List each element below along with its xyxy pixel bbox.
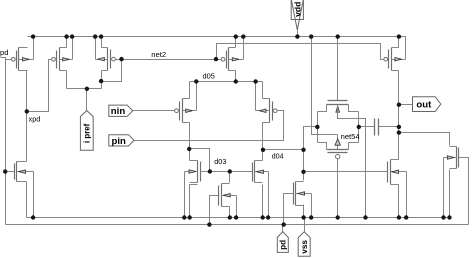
- junction dots on vss rail: [31, 215, 452, 219]
- wire M2 drain down: [66, 71, 68, 89]
- wire M8 bulk to vss: [406, 172, 408, 218]
- wire vdd pin stem: [297, 31, 299, 37]
- wire Mpd gate to pd rail: [284, 194, 293, 225]
- transistor Mmid nmos d03 pulldown: [219, 184, 237, 207]
- svg-text:net54: net54: [341, 132, 360, 141]
- svg-text:d05: d05: [203, 72, 215, 81]
- wire M4 bulk to vss: [33, 172, 35, 218]
- wire pd rail: [6, 224, 469, 226]
- svg-text:nin: nin: [111, 106, 126, 117]
- wire ML2 drain riser: [255, 150, 263, 161]
- wire out to M9 drain: [399, 133, 450, 146]
- transistor ML1 nmos load left (mirrored): [185, 161, 210, 183]
- wire out pin lead: [399, 104, 413, 106]
- junction dot d04 M8 gate: [301, 170, 305, 174]
- svg-text:pd: pd: [279, 240, 288, 250]
- wire cap right lead: [379, 126, 399, 128]
- junction dot M3 drain: [99, 79, 103, 83]
- wire cap left lead: [359, 126, 375, 128]
- transistor M7 pmos diff pair right (mirrored): [256, 99, 282, 123]
- pin i pref (bias current input): [80, 111, 93, 151]
- pin pin (non-inverting input): [109, 135, 134, 147]
- transistor M4 nmos pulldown (bottom-left): [6, 162, 34, 182]
- wire net54 right node lower: [358, 127, 360, 143]
- wire Mpd bulk to vss: [311, 194, 313, 218]
- wire Mmid gate to pd rail: [210, 196, 220, 225]
- wire d04 horizontal: [263, 149, 304, 151]
- junction dots on pd rail: [207, 222, 286, 226]
- svg-text:pin: pin: [111, 136, 126, 147]
- wire d03 gate bus: [201, 171, 253, 173]
- wire M5 drain to tail: [235, 71, 237, 82]
- wire M3 source to vdd: [101, 37, 103, 48]
- net label net2: [151, 50, 166, 59]
- wire M9 bulk to vss: [443, 158, 445, 218]
- wire ML2 source to vss: [262, 185, 264, 218]
- pin nin (inverting input): [109, 105, 133, 117]
- wire Mmid bulk to vss: [236, 196, 238, 218]
- svg-text:vdd: vdd: [292, 2, 302, 17]
- wire d04 riser to net54: [304, 127, 318, 150]
- pin out (output): [413, 97, 441, 112]
- wire M6 bulk to tail: [196, 82, 198, 111]
- wire M6 drain to d03: [189, 123, 191, 161]
- wire M8 source to vss: [398, 185, 400, 218]
- wire net54 left node lower: [317, 127, 319, 143]
- svg-text:d04: d04: [272, 153, 284, 160]
- wire M5 bulk to vdd: [243, 37, 245, 60]
- junction dot net54 left: [315, 125, 319, 129]
- svg-text:d03: d03: [214, 157, 226, 166]
- svg-text:vss: vss: [300, 240, 309, 254]
- transistor M8 nmos output driver: [388, 160, 407, 185]
- svg-text:pd: pd: [0, 48, 8, 57]
- wire d03 horizontal: [190, 149, 210, 172]
- svg-text:out: out: [416, 100, 432, 111]
- wire Mpd source to vss (vss pin tie): [303, 205, 305, 218]
- junction dot xpd: [25, 109, 29, 113]
- wire pin to M7 gate: [135, 111, 284, 141]
- wire vdd rail: [28, 37, 406, 60]
- transistor MC2 pmos transmission gate (net54 bottom, gate to vss): [318, 139, 359, 159]
- transistor M6 pmos diff pair left: [175, 99, 197, 123]
- net label pd (top-left): [0, 48, 8, 57]
- pin vss (ground): [298, 232, 310, 256]
- transistor M9 nmos out pulldown (mirrored): [444, 147, 459, 169]
- pin pd (power down): [277, 232, 288, 253]
- transistor M2 pmos mirror: [52, 48, 73, 71]
- capacitor C1 compensation: [375, 119, 379, 136]
- junction dot net2 at M5 gate: [214, 57, 218, 61]
- transistor M5 pmos tail current source: [221, 48, 243, 71]
- net label xpd: [29, 114, 41, 123]
- junction dot d03 left: [187, 147, 191, 151]
- junction dots d03 gate bus: [208, 169, 232, 173]
- wire net54 gate (top) to vdd: [337, 37, 339, 101]
- wire pd net left vertical: [1, 58, 12, 225]
- net label net54: [341, 132, 360, 141]
- net label d04: [272, 153, 284, 160]
- wire ML1 drain riser: [190, 160, 198, 162]
- junction dot d04 left: [261, 148, 265, 152]
- wire Mmid source to vss: [229, 207, 231, 218]
- wire M3 drain to gate (diode tie): [102, 60, 122, 82]
- svg-text:i pref: i pref: [83, 123, 92, 143]
- junction dots out node: [397, 103, 401, 135]
- transistor M10 pmos output stage: [384, 48, 406, 71]
- wire ipref net horizontal: [67, 88, 102, 90]
- wire tail d05 horizontal: [190, 81, 263, 83]
- wire M4 source to vss: [26, 182, 28, 218]
- wire M7 drain to d04: [262, 123, 264, 150]
- wire d04 to M8 gate: [304, 171, 388, 173]
- net label d03: [214, 157, 226, 166]
- wire ML1 source to vss: [190, 185, 198, 218]
- wire net54 pmos bulk to vdd: [312, 37, 338, 135]
- wire net2 horizontal: [122, 59, 222, 61]
- wire net54 left node: [317, 112, 319, 127]
- wire vss pin stem: [304, 218, 306, 232]
- wire out node vertical: [398, 71, 400, 160]
- wire M2 source to vdd: [66, 37, 68, 48]
- wire nin to M6 gate: [133, 110, 175, 112]
- net label d05: [203, 72, 215, 81]
- wire M7 source to tail: [262, 82, 264, 99]
- transistor M1 pmos power-down (top-left): [11, 48, 33, 71]
- junction dots on vdd rail: [31, 34, 401, 38]
- transistor M3 pmos diode (mirrored): [96, 48, 122, 71]
- wire net54 pmos gate to vss: [337, 159, 339, 218]
- transistor ML2 nmos load right: [253, 161, 269, 183]
- wire ML1 bulk to vss: [184, 172, 186, 218]
- wire net2 branch to M10 gate: [217, 44, 385, 60]
- wire d04 drop to Mpd drain: [303, 150, 305, 181]
- wire M9 gate to pd rail: [459, 158, 469, 225]
- wire ML2 bulk to vss: [268, 172, 270, 218]
- wire M2 bulk to vdd: [72, 37, 74, 60]
- junction dot ipref: [85, 87, 89, 91]
- wire pd pin stem: [282, 225, 284, 232]
- wire ipref pin drop: [86, 89, 88, 111]
- wire M10 source to vdd: [398, 37, 400, 48]
- wire vss rail: [27, 217, 450, 219]
- transistor Mpd nmos d04 pulldown: [293, 182, 312, 206]
- wire net54 pmos bulk riser: [337, 135, 339, 150]
- wire M3 drain vertical: [101, 71, 103, 89]
- wire net54 nmos bulk to vss: [338, 105, 366, 218]
- pin vdd (supply): [291, 0, 303, 30]
- wire xpd net (M1 drain to M4 drain): [26, 71, 28, 162]
- wire M3 bulk to vdd: [95, 37, 97, 60]
- junction dots on tail d05: [194, 79, 258, 83]
- wire M1 bulk tie to vdd: [33, 37, 35, 60]
- wire M9 source to vss: [449, 170, 451, 218]
- wire M5 source to vdd: [235, 37, 237, 48]
- wire M7 bulk to tail: [255, 82, 257, 111]
- svg-text:net2: net2: [151, 50, 166, 59]
- svg-text:xpd: xpd: [29, 114, 41, 123]
- wire net54 right node upper: [358, 112, 360, 127]
- junction dot net54 right: [357, 125, 361, 129]
- wire Mmid drain to d03: [229, 172, 231, 183]
- junction dot pd at M4 gate: [3, 169, 7, 173]
- wire M6 source to tail: [189, 82, 191, 99]
- junction dot d04 riser: [301, 148, 305, 152]
- wire xpd to M2 gate: [27, 60, 52, 112]
- transistor MC1 nmos transmission gate (net54 top, gate to vdd): [318, 101, 359, 119]
- junction dot net2 at M3 gate: [119, 57, 123, 61]
